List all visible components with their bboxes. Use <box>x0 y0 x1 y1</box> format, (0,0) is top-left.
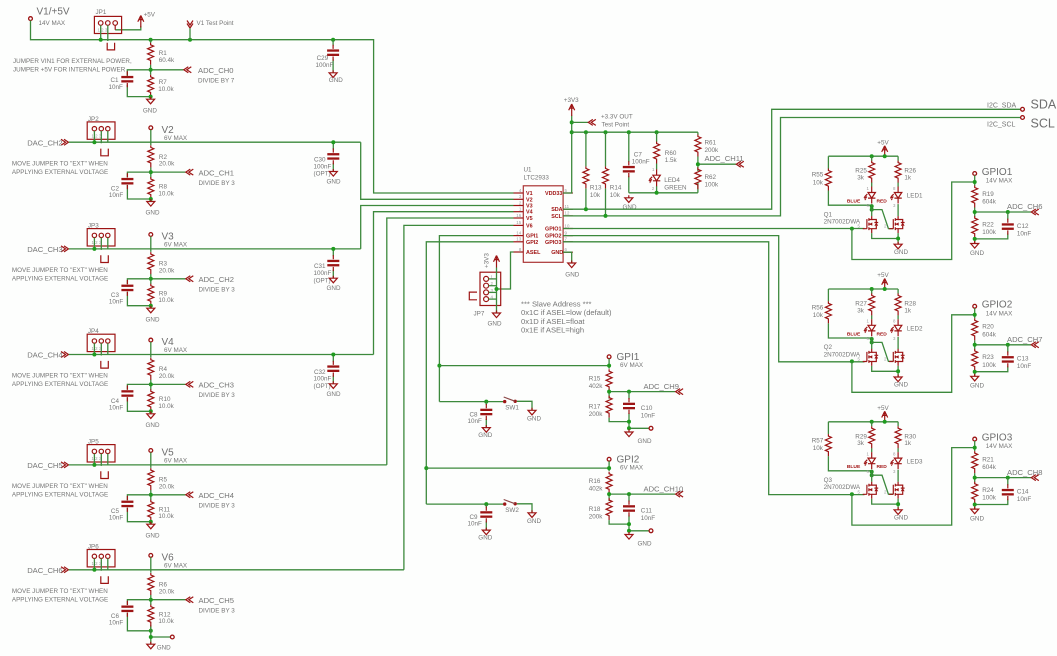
svg-text:10k: 10k <box>813 179 824 186</box>
label ADC_CH10 <box>644 485 684 498</box>
svg-text:DIVIDE BY 3: DIVIDE BY 3 <box>199 287 236 294</box>
wire divider bottom rail <box>609 520 649 531</box>
capacitor C6 10nF <box>109 601 133 627</box>
jumper shunt symbol below JP2 <box>101 149 109 156</box>
LED LED4 GREEN <box>649 167 688 192</box>
svg-text:R22: R22 <box>982 221 994 228</box>
wire R13 column <box>585 132 587 209</box>
svg-text:RED: RED <box>877 331 888 337</box>
pin 14 (GPI1) of U1 <box>514 235 524 237</box>
svg-text:6V MAX: 6V MAX <box>164 562 188 569</box>
wire C6 branch <box>127 600 150 631</box>
node V5 (DAC_CH5 input) <box>27 461 68 470</box>
svg-text:R57: R57 <box>812 437 824 444</box>
junction ADC_CH3 <box>149 382 153 386</box>
ground U1 <box>565 261 579 279</box>
resistor R26 1k <box>895 161 916 183</box>
wire red cathode to FET <box>897 470 899 482</box>
svg-text:100nF: 100nF <box>632 159 650 166</box>
wire net ADC_CH2 <box>151 278 186 280</box>
svg-text:JP1: JP1 <box>96 9 107 16</box>
label ADC_CH8 <box>1007 468 1042 481</box>
svg-text:GND: GND <box>146 316 160 323</box>
svg-text:16: 16 <box>516 213 521 218</box>
wire net GPI1 from U1 <box>439 236 513 402</box>
wire GPI2 row <box>426 467 609 469</box>
wire R19 pullup column <box>974 175 976 216</box>
svg-text:10.0k: 10.0k <box>158 191 174 198</box>
label ADC_CH2 <box>186 275 235 293</box>
junction GPI2 top <box>607 466 611 470</box>
junction SCL/R14 <box>604 214 608 218</box>
svg-text:1 2 3: 1 2 3 <box>92 561 102 566</box>
wire FET sources to gnd <box>872 366 898 377</box>
svg-text:R16: R16 <box>589 478 601 485</box>
wire C10 column <box>628 392 630 422</box>
ground 3V3 cluster <box>623 195 637 211</box>
wire GPIO1 +5V rail <box>828 155 898 158</box>
connector JP2 <box>87 116 115 143</box>
switch SW1 <box>503 397 519 412</box>
wire R14 column <box>605 132 607 216</box>
wire GPIO3 +5V rail <box>828 420 898 423</box>
capacitor C13 10nF <box>1002 351 1032 370</box>
svg-text:10nF: 10nF <box>109 299 124 306</box>
svg-text:6V MAX: 6V MAX <box>164 347 188 354</box>
svg-text:R21: R21 <box>982 457 994 464</box>
junction divider bottom <box>149 409 153 413</box>
svg-text:GND: GND <box>157 644 171 651</box>
svg-text:+3V3: +3V3 <box>484 253 491 268</box>
power +5V arrow GPIO2 <box>877 272 889 290</box>
pin 3 (V2) of U1 <box>514 198 524 200</box>
svg-text:R19: R19 <box>982 191 994 198</box>
svg-text:DAC_CH5: DAC_CH5 <box>27 461 62 470</box>
svg-text:BLUE: BLUE <box>847 331 861 337</box>
ground below R8 <box>146 199 160 217</box>
wire 3V3 test point stub <box>572 121 588 123</box>
svg-text:SCL: SCL <box>551 214 562 220</box>
resistor R28 1k <box>895 293 916 315</box>
junction C8 <box>484 400 488 404</box>
svg-text:1.5k: 1.5k <box>665 157 678 164</box>
pin 4 (V1) of U1 <box>514 192 524 194</box>
svg-text:ADC_CH8: ADC_CH8 <box>1007 468 1042 477</box>
svg-text:APPLYING EXTERNAL VOLTAGE: APPLYING EXTERNAL VOLTAGE <box>12 276 108 283</box>
wire R25 column <box>871 156 873 186</box>
wire gate jog to right FET <box>872 210 894 229</box>
resistor R57 10k <box>812 434 832 456</box>
svg-text:LED2: LED2 <box>907 326 923 333</box>
capacitor C4 10nF <box>109 386 133 412</box>
wire C4 branch <box>127 384 150 411</box>
svg-text:11: 11 <box>565 204 570 209</box>
jumper shunt symbol below JP1 <box>107 43 114 50</box>
LED blue of LED2 <box>847 319 876 337</box>
wire GPI1 row <box>439 365 609 367</box>
label ADC_CH7 <box>1007 335 1042 348</box>
svg-text:C14: C14 <box>1017 488 1029 495</box>
ground below C29 <box>329 70 343 84</box>
wire net V5 to U1 pin <box>387 218 514 465</box>
svg-text:JUMPER +5V FOR INTERNAL POWER: JUMPER +5V FOR INTERNAL POWER <box>13 67 126 74</box>
node V2 (DAC_CH2 input) <box>27 138 68 147</box>
svg-text:15: 15 <box>516 220 521 225</box>
capacitor C10 10nF <box>623 398 655 419</box>
ground below Q1 <box>894 242 908 256</box>
svg-text:10.0k: 10.0k <box>158 513 174 520</box>
svg-text:604k: 604k <box>982 464 997 471</box>
ground below Q3 <box>894 507 908 521</box>
svg-text:GND: GND <box>478 432 492 439</box>
svg-text:V1: V1 <box>526 191 533 197</box>
svg-text:R61: R61 <box>705 139 717 146</box>
wire R27 column <box>871 289 873 319</box>
svg-text:2N7002DWA: 2N7002DWA <box>824 351 861 358</box>
switch SW2 <box>503 500 519 515</box>
resistor R25 3k <box>855 161 874 183</box>
svg-text:MOVE JUMPER TO "EXT" WHEN: MOVE JUMPER TO "EXT" WHEN <box>12 373 108 380</box>
resistor R4 20.0k <box>148 358 175 380</box>
wire divider column <box>150 465 152 522</box>
wire net ADC_CH8 <box>975 477 1031 479</box>
svg-text:3k: 3k <box>857 307 865 314</box>
svg-text:200k: 200k <box>705 147 720 154</box>
junction GPI2 column <box>424 466 428 470</box>
svg-text:*** Slave Address ***: *** Slave Address *** <box>521 300 592 309</box>
svg-text:20.0k: 20.0k <box>159 373 175 380</box>
jumper shunt symbol below JP5 <box>101 471 109 478</box>
pin 7 (GPIO3) of U1 <box>563 241 573 243</box>
svg-text:RED: RED <box>877 199 888 205</box>
svg-text:GND: GND <box>329 77 343 84</box>
terminal V3 test point <box>149 232 188 249</box>
svg-text:R13: R13 <box>590 185 602 192</box>
svg-text:100k: 100k <box>982 229 997 236</box>
label ADC_CH9 <box>644 382 684 395</box>
wire R1/R7 divider column <box>150 40 152 97</box>
junction ADC_CH1 <box>149 170 153 174</box>
ground below JP7 <box>488 311 502 328</box>
wire net ADC_CH3 <box>151 383 186 385</box>
jumper shunt symbol below JP6 <box>101 576 109 583</box>
svg-text:1 2 3: 1 2 3 <box>92 134 102 139</box>
svg-text:C7: C7 <box>634 152 643 159</box>
junction 3V3 rail taps <box>584 130 588 134</box>
pin 11 (SDA) of U1 <box>563 208 573 210</box>
capacitor C1 10nF <box>109 71 134 91</box>
svg-text:APPLYING EXTERNAL VOLTAGE: APPLYING EXTERNAL VOLTAGE <box>12 169 108 176</box>
wire 3V3 gnd rail <box>629 192 698 194</box>
svg-text:DAC_CH3: DAC_CH3 <box>27 245 62 254</box>
wire net ADC_CH0 <box>151 69 184 71</box>
svg-text:14: 14 <box>516 230 521 235</box>
svg-text:10nF: 10nF <box>1017 363 1032 370</box>
resistor R12 10.0k <box>148 605 175 627</box>
wire red cathode to FET <box>897 337 899 349</box>
resistor R61 200k <box>695 135 719 157</box>
ground GPIO3 pulldown <box>970 507 984 523</box>
wire net V1 main rail <box>31 21 514 194</box>
pin 1 (V4) of U1 <box>514 211 524 213</box>
svg-text:1 2 3: 1 2 3 <box>92 346 102 351</box>
svg-text:2N7002DWA: 2N7002DWA <box>824 484 861 491</box>
wire net V3 row <box>69 248 361 250</box>
junction pulldown bottom <box>973 370 977 374</box>
wire FET sources to gnd <box>872 499 898 510</box>
junction GPI1 column <box>437 364 441 368</box>
svg-text:10k: 10k <box>610 192 621 199</box>
resistor R9 10.0k <box>148 284 175 306</box>
resistor R18 200k <box>589 498 612 520</box>
wire R29 column <box>871 422 873 452</box>
capacitor C11 10nF <box>623 501 655 522</box>
wire divider bottom rail <box>609 418 649 429</box>
wire net V2 row <box>69 141 361 143</box>
LED red of LED3 <box>877 452 924 470</box>
pin 15 (V6) of U1 <box>514 224 524 226</box>
svg-text:RED: RED <box>877 464 888 470</box>
capacitor C9 10nF <box>468 507 493 528</box>
wire net V3 to U1 pin <box>361 206 514 249</box>
svg-text:14V MAX: 14V MAX <box>986 443 1013 450</box>
wire C2 branch <box>127 172 150 199</box>
resistor R23 100k <box>972 349 997 371</box>
wire C32 branch <box>332 355 334 384</box>
svg-text:+5V: +5V <box>877 139 889 146</box>
wire R55 column <box>828 156 871 205</box>
terminal V5 test point <box>149 448 188 465</box>
svg-text:+3.3V OUT: +3.3V OUT <box>601 114 633 121</box>
terminal V2 test point <box>149 125 188 142</box>
svg-text:6V MAX: 6V MAX <box>164 135 188 142</box>
junction JP1/V1 <box>99 38 103 42</box>
junction gate entry <box>850 492 854 496</box>
wire V6 terminal stub <box>150 557 152 570</box>
svg-text:GND: GND <box>146 422 160 429</box>
jumper shunt symbol left of JP7 <box>469 292 477 300</box>
svg-text:C12: C12 <box>1017 223 1029 230</box>
wire divider column <box>150 355 152 412</box>
svg-text:10.0k: 10.0k <box>158 297 174 304</box>
svg-text:GND: GND <box>551 250 563 256</box>
junction C9 <box>484 502 488 506</box>
wire FET sources to gnd <box>872 233 898 244</box>
svg-text:GND: GND <box>970 515 984 522</box>
svg-text:ADC_CH11: ADC_CH11 <box>705 154 744 163</box>
svg-text:R60: R60 <box>665 150 677 157</box>
pin 8 (ASEL) of U1 <box>514 251 524 253</box>
resistor R8 10.0k <box>148 177 175 199</box>
wire C5 branch <box>127 495 150 522</box>
power +3V3 arrow <box>564 97 579 116</box>
svg-text:+5V: +5V <box>877 272 889 279</box>
svg-text:GPIO1: GPIO1 <box>982 167 1013 178</box>
svg-text:V6: V6 <box>526 223 533 229</box>
svg-text:R7: R7 <box>159 79 168 86</box>
svg-text:U1: U1 <box>524 167 533 174</box>
svg-text:Q2: Q2 <box>824 344 833 351</box>
capacitor C3 10nF <box>109 280 133 306</box>
svg-text:R24: R24 <box>982 487 994 494</box>
svg-text:10nF: 10nF <box>468 418 483 425</box>
junction GPI1 top <box>607 364 611 368</box>
svg-text:GND: GND <box>894 249 908 256</box>
svg-text:C10: C10 <box>641 405 653 412</box>
svg-text:6V MAX: 6V MAX <box>164 458 188 465</box>
svg-text:V2: V2 <box>526 197 533 203</box>
junction divider bottom <box>149 629 153 633</box>
svg-text:1k: 1k <box>904 307 912 314</box>
svg-text:ADC_CH10: ADC_CH10 <box>644 485 684 494</box>
svg-text:SW1: SW1 <box>505 405 519 412</box>
resistor R56 10k <box>812 301 832 323</box>
svg-text:12: 12 <box>565 211 570 216</box>
node V1/+5V input terminal <box>29 7 70 27</box>
pin 16 (V5) of U1 <box>514 217 524 219</box>
wire divider column <box>150 249 152 306</box>
svg-text:GND: GND <box>970 383 984 390</box>
label ADC_CH0 <box>184 66 235 84</box>
wire gate jog to right FET <box>872 475 894 494</box>
junction ADC_CH8 <box>973 476 977 480</box>
wire net GPIO2 from U1 <box>563 236 864 362</box>
ground below C9 <box>478 528 492 542</box>
junction source rail <box>896 369 900 373</box>
svg-text:10nF: 10nF <box>1017 496 1032 503</box>
junction divider bottom <box>149 197 153 201</box>
ground below R7 <box>143 97 157 115</box>
junction pullup top <box>973 180 977 184</box>
label ADC_CH5 <box>186 596 235 614</box>
svg-text:ASEL: ASEL <box>526 250 541 256</box>
wire 3V3 rail <box>572 131 698 133</box>
svg-text:JUMPER VIN1 FOR EXTERNAL POWER: JUMPER VIN1 FOR EXTERNAL POWER, <box>13 58 132 65</box>
svg-text:(OPT): (OPT) <box>314 171 331 178</box>
resistor R27 3k <box>855 293 874 315</box>
wire net V6 to U1 pin <box>404 225 514 569</box>
jumper shunt symbol below JP3 <box>101 255 109 262</box>
svg-text:LTC2933: LTC2933 <box>524 175 550 182</box>
svg-text:APPLYING EXTERNAL VOLTAGE: APPLYING EXTERNAL VOLTAGE <box>12 381 108 388</box>
svg-text:3k: 3k <box>857 175 865 182</box>
junction ADC_CH7 <box>973 343 977 347</box>
svg-text:60.4k: 60.4k <box>159 57 175 64</box>
junction LED cathode / gate <box>870 204 874 208</box>
wire net V2 to U1 pin <box>361 142 514 199</box>
svg-text:GND: GND <box>638 540 652 547</box>
junction ASEL/JP7 <box>495 287 499 291</box>
svg-text:10nF: 10nF <box>109 404 124 411</box>
svg-text:LED3: LED3 <box>907 458 923 465</box>
wire net V4 to U1 pin <box>374 212 514 355</box>
terminal I2C_SDA <box>987 98 1057 112</box>
svg-text:ADC_CH7: ADC_CH7 <box>1007 335 1042 344</box>
svg-text:Test Point: Test Point <box>602 121 630 128</box>
ground right of SW2 <box>527 510 541 525</box>
svg-text:14V MAX: 14V MAX <box>39 20 66 27</box>
ground below R12 <box>147 642 171 652</box>
svg-text:100k: 100k <box>982 495 997 502</box>
svg-text:C11: C11 <box>641 507 653 514</box>
svg-text:1 2 3: 1 2 3 <box>92 240 102 245</box>
wire C13 column <box>975 345 1008 372</box>
junction bottom rail <box>627 420 631 424</box>
junction LED cathode / gate <box>870 470 874 474</box>
svg-text:10k: 10k <box>590 192 601 199</box>
junction SDA/R13 <box>584 207 588 211</box>
svg-text:MOVE JUMPER TO "EXT" WHEN: MOVE JUMPER TO "EXT" WHEN <box>12 160 108 167</box>
wire net SDA <box>563 109 1021 209</box>
svg-text:100k: 100k <box>982 362 997 369</box>
junction JP2 pin1 <box>92 140 96 144</box>
resistor R10 10.0k <box>148 389 175 411</box>
terminal GPIO3 <box>973 433 1013 451</box>
svg-text:604k: 604k <box>982 199 997 206</box>
wire C29 branch <box>332 40 334 73</box>
resistor R17 200k <box>589 396 612 419</box>
connector JP3 <box>87 223 115 250</box>
power +3V3 arrow at JP7 <box>484 253 500 268</box>
svg-text:R20: R20 <box>982 324 994 331</box>
junction JP6 pin1 <box>92 568 96 572</box>
capacitor C2 10nF <box>109 173 133 199</box>
wire GPI1 terminal stub + divider <box>608 359 610 399</box>
capacitor C12 10nF <box>1002 219 1032 238</box>
svg-text:GND: GND <box>488 321 502 328</box>
node V3 (DAC_CH3 input) <box>27 245 68 254</box>
junction ADC_CH5 <box>149 598 153 602</box>
wire net V6 row <box>69 569 404 571</box>
svg-text:GPIO2: GPIO2 <box>982 300 1013 311</box>
wire loop to pullup column <box>852 448 975 525</box>
svg-text:SCL: SCL <box>1031 117 1055 131</box>
svg-text:R56: R56 <box>812 305 824 312</box>
svg-text:604k: 604k <box>982 331 997 338</box>
svg-text:APPLYING EXTERNAL VOLTAGE: APPLYING EXTERNAL VOLTAGE <box>12 492 108 499</box>
test point +3.3V OUT <box>588 114 633 129</box>
junction ADC_CH0 <box>149 68 153 72</box>
wire gate jog to right FET <box>872 342 894 361</box>
svg-text:GND: GND <box>327 391 341 398</box>
svg-text:Q3: Q3 <box>824 477 833 484</box>
wire test point drop <box>189 28 191 39</box>
ground GPI1 block <box>625 430 652 445</box>
resistor R1 60.4k <box>148 43 175 65</box>
svg-text:ADC_CH3: ADC_CH3 <box>199 381 234 390</box>
resistor R14 10k <box>603 166 622 199</box>
ground below C30 <box>327 169 341 186</box>
pin 9 (GPIO2) of U1 <box>563 235 573 237</box>
ground below C31 <box>327 276 341 293</box>
svg-text:10.0k: 10.0k <box>158 86 174 93</box>
pin 6 (GND) of U1 <box>563 251 573 253</box>
wire R57 column <box>828 422 871 471</box>
svg-text:DAC_CH6: DAC_CH6 <box>27 566 62 575</box>
wire R30 column <box>897 422 899 452</box>
svg-text:14V MAX: 14V MAX <box>986 310 1013 317</box>
svg-text:GND: GND <box>327 285 341 292</box>
wire net ADC_CH5 <box>151 599 186 601</box>
resistor R29 3k <box>855 426 874 448</box>
connector JP6 <box>87 544 115 571</box>
resistor R15 402k <box>589 369 612 391</box>
svg-text:GPIO3: GPIO3 <box>545 240 561 246</box>
junction ADC_CH4 <box>149 493 153 497</box>
wire R56 column <box>828 289 871 338</box>
resistor R7 10.0k <box>148 75 175 97</box>
wire net GPI2 from U1 <box>426 242 513 504</box>
